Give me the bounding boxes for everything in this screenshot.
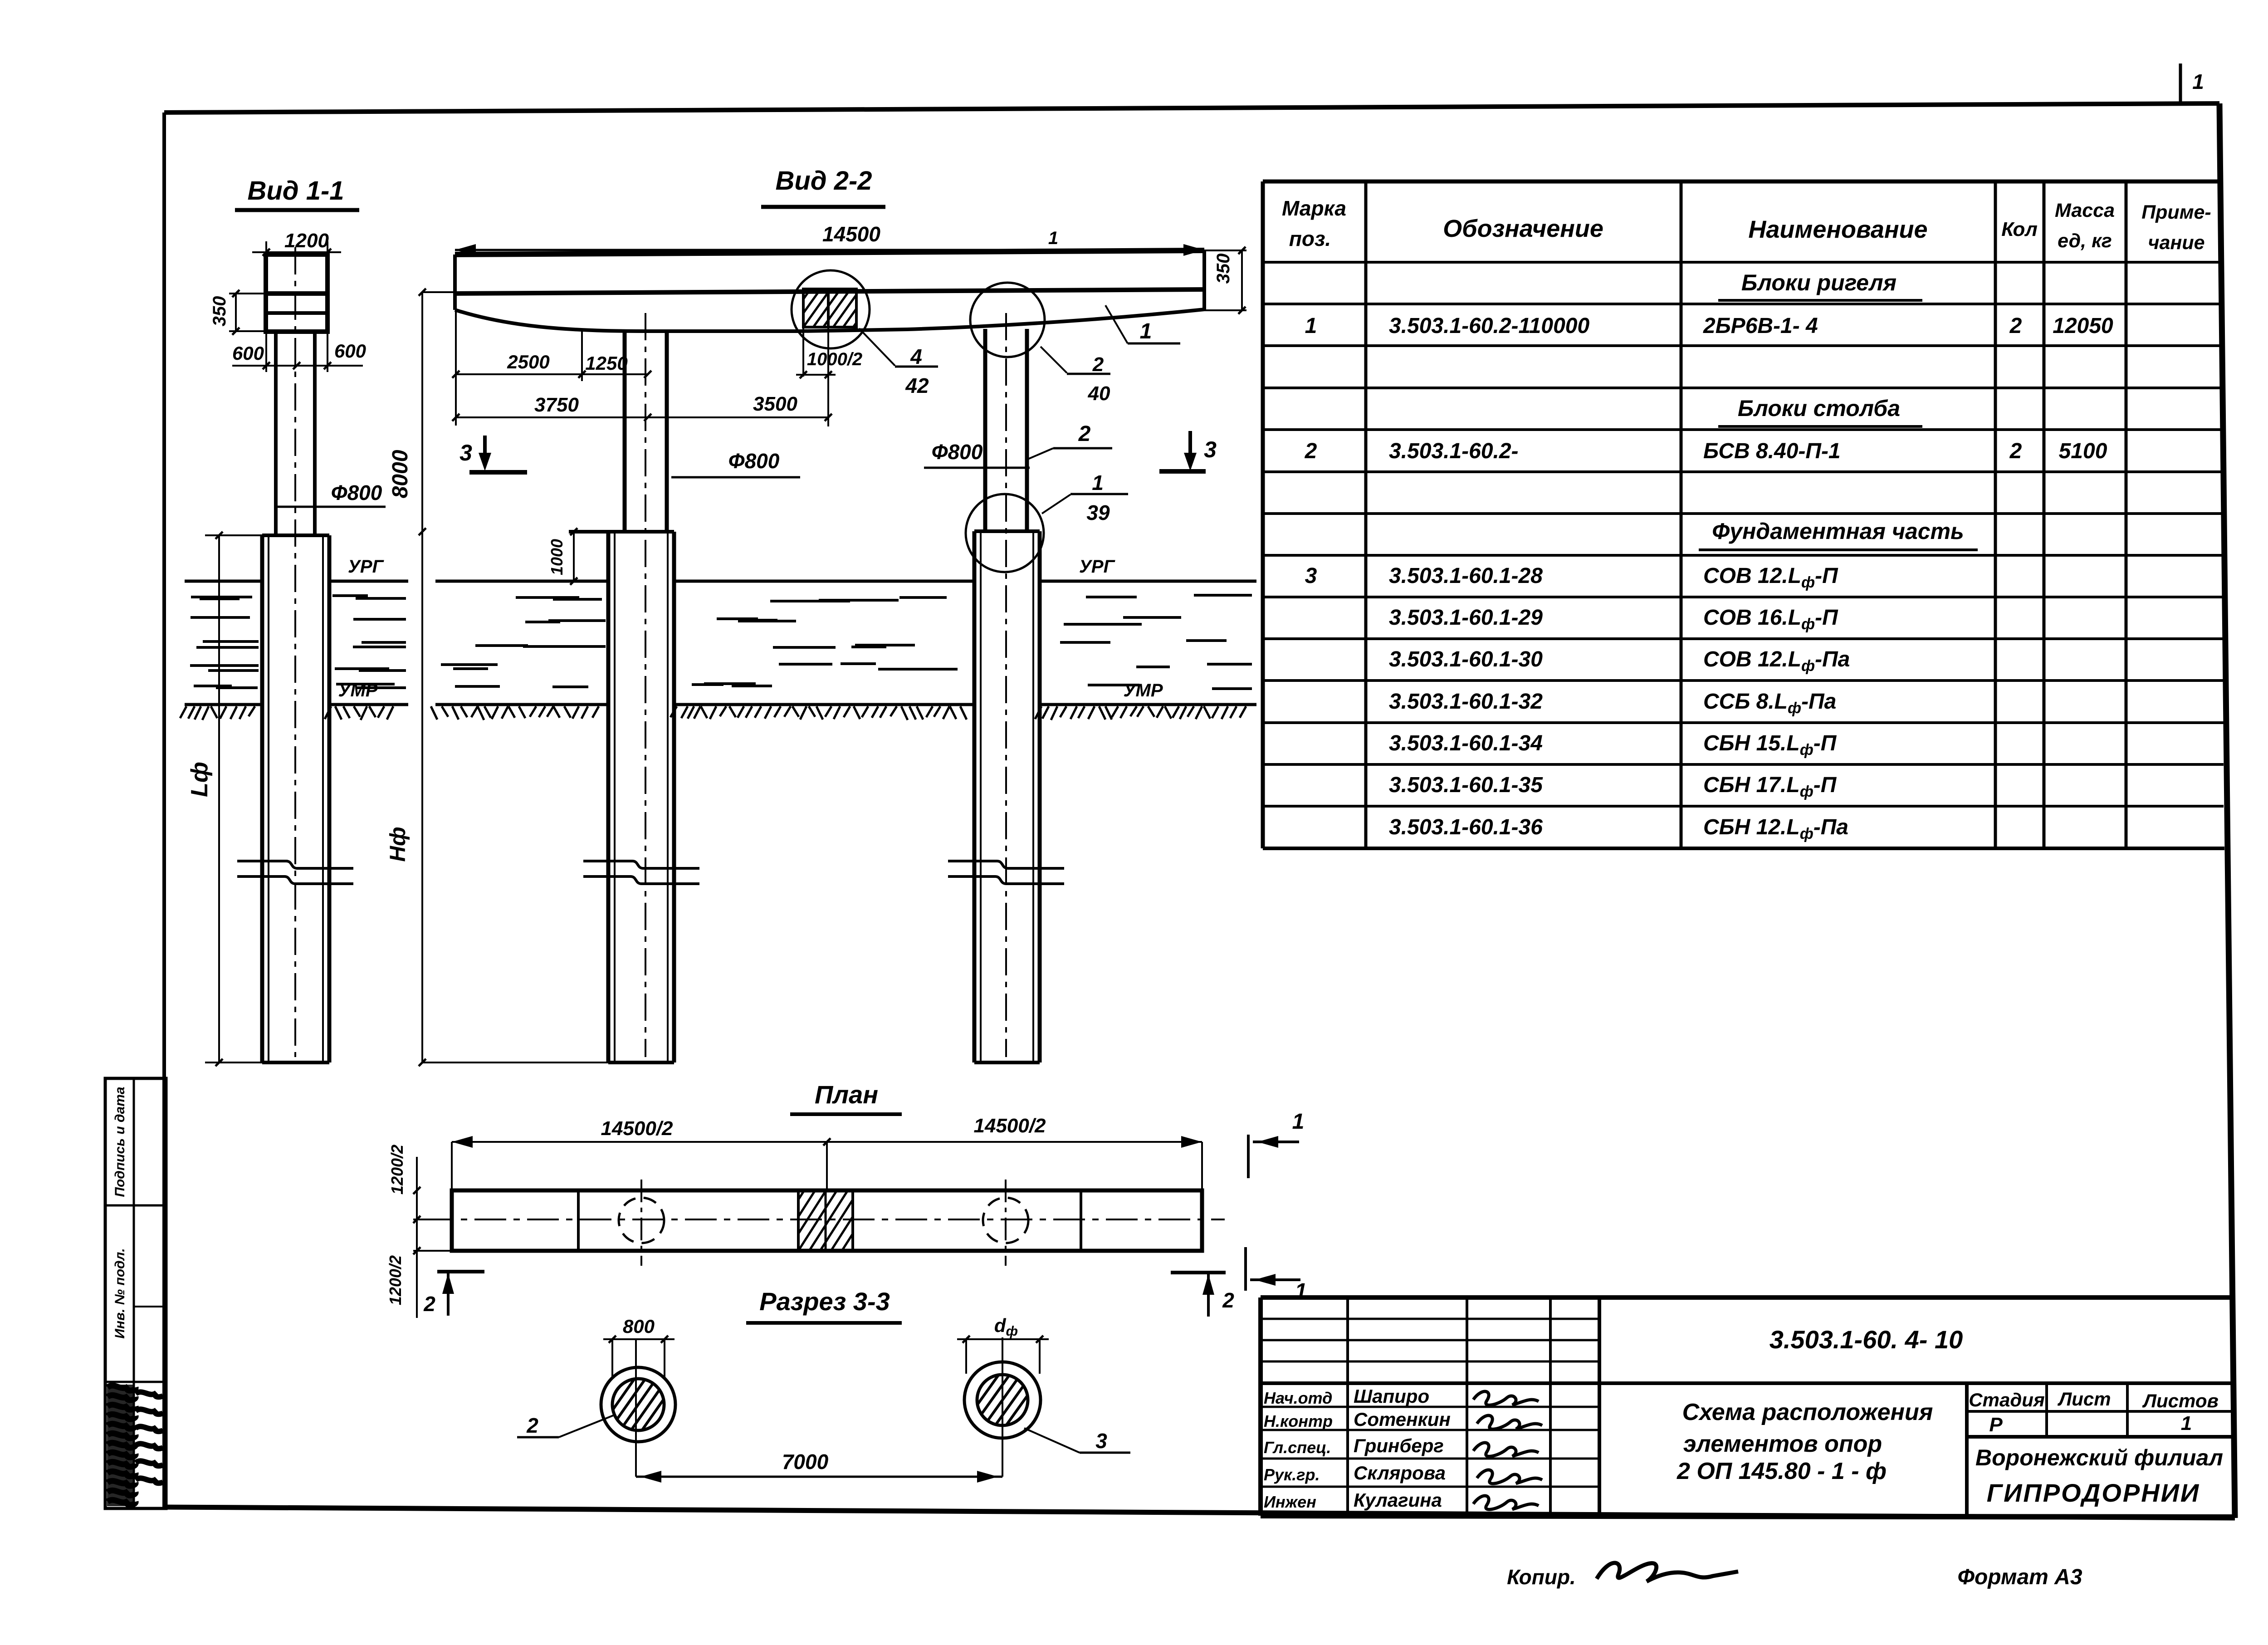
table row 2: column block [1305, 439, 2107, 463]
plan dim 14500/2 + 14500/2 [452, 1115, 1202, 1190]
dim 800 over left pile section [603, 1316, 675, 1379]
svg-text:3.503.1-60.1-28: 3.503.1-60.1-28 [1389, 564, 1543, 588]
table group header: Фундаментная часть [1699, 519, 1978, 550]
dims 600 / 600 under cap (view 1-1) [232, 333, 366, 372]
table row: foundation -35 [1389, 773, 1837, 800]
svg-text:800: 800 [623, 1316, 655, 1337]
right pile section circles [941, 1337, 1064, 1477]
svg-text:2: 2 [1078, 422, 1091, 446]
plan joint hatched square [755, 1190, 935, 1251]
table row: foundation -36 [1389, 815, 1848, 842]
stage/sheet headers [1969, 1388, 2219, 1436]
foundation pile (view 1-1) [262, 535, 329, 1062]
svg-text:План: План [815, 1080, 878, 1109]
plan beam outline [452, 1190, 1202, 1251]
svg-text:1: 1 [1092, 471, 1104, 494]
svg-text:Наименование: Наименование [1748, 216, 1927, 243]
organization name [1975, 1445, 2223, 1507]
svg-text:Нач.отд: Нач.отд [1264, 1389, 1332, 1407]
svg-text:3.503.1-60.2-110000: 3.503.1-60.2-110000 [1389, 314, 1589, 338]
title block staff rows [1264, 1386, 1451, 1511]
beam end extension line [455, 310, 457, 426]
svg-text:СОВ 12.Lф-П: СОВ 12.Lф-П [1703, 564, 1838, 591]
svg-text:Ф800: Ф800 [331, 481, 382, 504]
svg-text:СБН 15.Lф-П: СБН 15.Lф-П [1703, 731, 1837, 759]
svg-text:1: 1 [1295, 1279, 1307, 1303]
dims 2500 / 1250 (view 2-2) [452, 330, 651, 381]
section cut mark 2 (plan right) [1171, 1273, 1234, 1317]
left margin stamp strip [105, 1078, 166, 1508]
svg-text:УРГ: УРГ [1079, 557, 1116, 577]
svg-text:3.503.1-60.2-: 3.503.1-60.2- [1389, 439, 1519, 463]
table row: foundation -30 [1389, 647, 1850, 675]
dim dф over right pile section [957, 1315, 1049, 1374]
svg-text:Рук.гр.: Рук.гр. [1264, 1465, 1320, 1484]
dim 350 at right beam end [1204, 247, 1246, 314]
title block outline [1261, 1297, 2234, 1517]
svg-text:600: 600 [232, 343, 264, 364]
svg-text:Лист: Лист [2057, 1388, 2111, 1410]
section title: Разрез 3-3 [746, 1287, 902, 1323]
svg-text:Гл.спец.: Гл.спец. [1264, 1438, 1331, 1457]
svg-text:600: 600 [334, 340, 366, 362]
svg-text:Вид 1-1: Вид 1-1 [247, 176, 344, 206]
section cut mark 1 (plan upper right) [1248, 1110, 1304, 1178]
label Ф800 left column [671, 449, 800, 477]
section cut mark 1 (plan lower right) [1246, 1247, 1307, 1303]
ground line УМР with hatching [180, 705, 1256, 720]
svg-text:1250: 1250 [585, 352, 627, 374]
svg-text:УМР: УМР [1123, 681, 1163, 700]
svg-text:3.503.1-60.1-35: 3.503.1-60.1-35 [1389, 773, 1543, 797]
svg-text:14500/2: 14500/2 [973, 1115, 1046, 1137]
svg-text:3: 3 [459, 440, 472, 465]
left pier foundation pile (view 2-2) [569, 532, 674, 1062]
svg-text:12050: 12050 [2053, 314, 2113, 338]
svg-text:1: 1 [1305, 314, 1317, 338]
column shaft (view 1-1) [276, 332, 315, 535]
svg-text:2: 2 [1092, 353, 1104, 376]
specification table grid [1263, 181, 2224, 848]
vertical dim Нф [386, 532, 608, 1066]
svg-text:Приме-: Приме- [2141, 201, 2211, 223]
svg-text:БСВ 8.40-П-1: БСВ 8.40-П-1 [1703, 439, 1841, 463]
plan centre axis [422, 1219, 1225, 1220]
svg-text:350: 350 [210, 296, 230, 327]
svg-text:2БР6В-1- 4: 2БР6В-1- 4 [1703, 314, 1818, 338]
svg-text:3.503.1-60. 4- 10: 3.503.1-60. 4- 10 [1769, 1325, 1963, 1354]
svg-text:Блоки столба: Блоки столба [1738, 396, 1900, 421]
svg-text:Ф800: Ф800 [932, 440, 983, 464]
svg-text:350: 350 [1213, 254, 1233, 284]
dim 1000/2 under joint square [796, 327, 862, 426]
table group header: Блоки столба [1718, 396, 1922, 426]
svg-text:чание: чание [2148, 232, 2204, 254]
svg-text:3.503.1-60.1-32: 3.503.1-60.1-32 [1389, 690, 1543, 714]
svg-text:3.503.1-60.1-30: 3.503.1-60.1-30 [1389, 647, 1543, 671]
svg-text:2: 2 [1222, 1288, 1234, 1312]
table group header: Блоки ригеля [1718, 270, 1922, 300]
svg-text:14500/2: 14500/2 [601, 1117, 673, 1140]
svg-text:1000: 1000 [547, 539, 566, 575]
svg-text:Сотенкин: Сотенкин [1354, 1409, 1451, 1430]
section cut mark 2 (plan left) [423, 1272, 484, 1316]
svg-text:Схема расположения: Схема расположения [1682, 1399, 1933, 1425]
drawing sheet frame [164, 103, 2235, 1518]
svg-text:5100: 5100 [2059, 439, 2107, 463]
svg-text:Гринберг: Гринберг [1354, 1435, 1444, 1456]
svg-text:4: 4 [910, 345, 922, 368]
svg-text:2: 2 [423, 1292, 435, 1316]
svg-text:ГИПРОДОРНИИ: ГИПРОДОРНИИ [1987, 1479, 2200, 1507]
label 1/39 with leader [1042, 471, 1128, 524]
svg-text:1: 1 [2192, 70, 2204, 93]
table headers [1282, 196, 2211, 254]
svg-text:Нф: Нф [386, 827, 410, 862]
detail circle around joint square [792, 270, 870, 348]
stamp strip signatures blob [108, 1386, 136, 1505]
section cut mark 3 (right) [1159, 431, 1217, 471]
svg-text:УМР: УМР [338, 681, 377, 700]
plan title: План [790, 1080, 902, 1114]
left column centerline [645, 313, 646, 1057]
svg-text:1200/2: 1200/2 [386, 1255, 405, 1305]
plan dims 1200/2 1200/2 [386, 1145, 452, 1318]
position label 1 on beam (leader) [1105, 305, 1180, 343]
position label 2 for column (leader) [1028, 422, 1112, 459]
table row: foundation -34 [1389, 731, 1837, 759]
svg-text:СБН 17.Lф-П: СБН 17.Lф-П [1703, 773, 1837, 800]
position label 2 (section 3-3) [517, 1414, 613, 1437]
drawing title text [1677, 1399, 1933, 1484]
svg-text:СОВ 12.Lф-Па: СОВ 12.Lф-Па [1703, 647, 1850, 675]
svg-text:7000: 7000 [782, 1450, 829, 1474]
svg-text:Подпись и дата: Подпись и дата [112, 1087, 127, 1197]
section cut mark 3 (left) [459, 436, 527, 472]
svg-text:Фундаментная часть: Фундаментная часть [1712, 519, 1964, 544]
dim 350 left of cap (view 1-1) [210, 290, 266, 335]
dim Lф (view 1-1) [186, 532, 262, 1066]
label 2/40 with leader [1041, 347, 1110, 405]
svg-text:1: 1 [2181, 1412, 2192, 1434]
svg-text:39: 39 [1086, 501, 1110, 524]
svg-text:СОВ 16.Lф-П: СОВ 16.Lф-П [1703, 606, 1838, 633]
svg-text:2 ОП 145.80 - 1 - ф: 2 ОП 145.80 - 1 - ф [1677, 1458, 1887, 1484]
view title: Вид 2-2 [761, 166, 885, 207]
svg-text:3: 3 [1095, 1429, 1107, 1453]
svg-text:Вид 2-2: Вид 2-2 [775, 166, 872, 196]
dims 3750 / 3500 (view 2-2) [452, 393, 832, 421]
column centerline (view 1-1) [294, 247, 296, 1057]
svg-text:Копир.: Копир. [1507, 1565, 1576, 1589]
svg-text:Н.контр: Н.контр [1264, 1412, 1333, 1430]
svg-text:Инв. № подл.: Инв. № подл. [112, 1248, 127, 1338]
svg-text:Обозначение: Обозначение [1443, 215, 1603, 242]
table row: foundation -29 [1389, 606, 1838, 633]
dim 14500 (view 2-2) [455, 222, 1204, 256]
right column of pier (view 2-2) [985, 329, 1027, 531]
view title: Вид 1-1 [235, 176, 359, 210]
dim 7000 between pile sections [636, 1450, 1002, 1483]
svg-text:2: 2 [2009, 314, 2022, 338]
crossbeam (ригель) view 2-2 [455, 250, 1204, 331]
svg-text:1: 1 [1048, 228, 1058, 248]
svg-text:ед, кг: ед, кг [2058, 230, 2112, 252]
svg-text:1200/2: 1200/2 [388, 1145, 406, 1195]
pile break symbols [237, 861, 353, 884]
svg-text:3750: 3750 [534, 394, 579, 416]
svg-text:элементов опор: элементов опор [1683, 1431, 1882, 1457]
plan dashed circles (columns below) [619, 1180, 1028, 1266]
svg-text:Шапиро: Шапиро [1354, 1386, 1429, 1407]
dim 1200 over cap (view 1-1) [252, 230, 341, 262]
table row 1: beam block [1305, 314, 2113, 338]
svg-text:3.503.1-60.1-36: 3.503.1-60.1-36 [1389, 815, 1543, 839]
svg-text:Воронежский филиал: Воронежский филиал [1975, 1445, 2223, 1470]
svg-text:3: 3 [1204, 437, 1217, 462]
water level line УРГ [185, 580, 1256, 583]
detail circle around right column top [970, 283, 1045, 357]
svg-text:8000: 8000 [388, 450, 412, 498]
label Ф800 with leader (view 1-1) [275, 481, 386, 507]
svg-text:УРГ: УРГ [348, 557, 385, 577]
svg-text:поз.: поз. [1289, 227, 1331, 250]
svg-text:2500: 2500 [507, 351, 549, 372]
left column of pier (view 2-2) [625, 330, 667, 532]
svg-text:Масса: Масса [2055, 200, 2115, 221]
svg-text:1000/2: 1000/2 [807, 349, 862, 369]
water shading dashes [190, 595, 1252, 689]
label Ф800 right column [924, 440, 1030, 468]
dim 1000 at left foundation top [547, 528, 577, 585]
svg-text:Марка: Марка [1282, 196, 1346, 220]
table row 3: foundation -28 [1305, 564, 1838, 591]
svg-text:Стадия: Стадия [1969, 1389, 2044, 1410]
svg-text:Склярова: Склярова [1354, 1462, 1446, 1483]
svg-text:СБН 12.Lф-Па: СБН 12.Lф-Па [1703, 815, 1848, 842]
svg-text:1: 1 [1292, 1110, 1305, 1134]
svg-text:Листов: Листов [2142, 1390, 2219, 1411]
svg-text:1200: 1200 [284, 230, 329, 252]
svg-text:Формат А3: Формат А3 [1957, 1565, 2082, 1589]
staff signatures [1473, 1391, 1542, 1509]
svg-text:2: 2 [2009, 439, 2022, 463]
svg-text:Lф: Lф [186, 762, 213, 797]
svg-text:Разрез 3-3: Разрез 3-3 [759, 1287, 890, 1316]
pier cap cross-section (view 1-1) [266, 255, 327, 332]
left pile section circles [577, 1339, 700, 1477]
label 4/42 with leader [859, 328, 938, 397]
svg-text:Р: Р [1989, 1414, 2003, 1436]
joint hatched square between beam blocks [773, 289, 910, 327]
right pier foundation pile (view 2-2) [974, 531, 1040, 1062]
svg-text:2: 2 [526, 1414, 538, 1437]
detail circle around right column base joint [966, 494, 1044, 572]
right column centerline [1005, 313, 1007, 1057]
svg-text:3.503.1-60.1-29: 3.503.1-60.1-29 [1389, 606, 1543, 630]
svg-text:3.503.1-60.1-34: 3.503.1-60.1-34 [1389, 731, 1543, 755]
vertical dim 8000 [388, 289, 455, 535]
svg-text:40: 40 [1088, 382, 1110, 405]
page number tick "1" top right [2180, 64, 2204, 104]
svg-text:Инжен: Инжен [1264, 1493, 1316, 1511]
svg-text:Кулагина: Кулагина [1354, 1489, 1442, 1511]
svg-text:3: 3 [1305, 564, 1317, 588]
svg-text:ССБ 8.Lф-Па: ССБ 8.Lф-Па [1703, 690, 1836, 717]
svg-text:14500: 14500 [822, 222, 880, 246]
svg-text:42: 42 [905, 374, 929, 397]
svg-text:1: 1 [1140, 319, 1152, 343]
svg-text:Ф800: Ф800 [728, 449, 780, 473]
svg-text:3500: 3500 [753, 393, 797, 415]
position label 3 (section 3-3) [1024, 1428, 1130, 1453]
svg-text:Блоки ригеля: Блоки ригеля [1741, 270, 1897, 295]
svg-text:Кол: Кол [2001, 218, 2038, 240]
svg-text:2: 2 [1305, 439, 1317, 463]
table row: foundation -32 [1389, 690, 1836, 717]
